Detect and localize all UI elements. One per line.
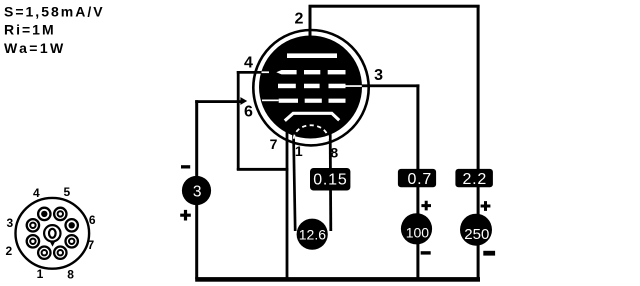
cathode	[285, 113, 339, 120]
svg-text:2: 2	[295, 11, 304, 28]
wire bracket vertical	[237, 71, 240, 170]
socket pin 7	[66, 235, 78, 247]
arrowhead grid connection	[240, 97, 247, 105]
svg-text:4: 4	[33, 186, 40, 200]
svg-text:12.6: 12.6	[299, 226, 326, 242]
svg-text:100: 100	[406, 224, 430, 240]
socket pin 1	[38, 247, 50, 259]
socket center post	[44, 225, 60, 247]
socket pin 2	[27, 235, 39, 247]
tube electrode assembly (black disc)	[259, 36, 362, 139]
plus sign (anode supply)	[481, 201, 491, 211]
heater current box 0.15	[310, 168, 350, 191]
svg-text:6: 6	[89, 213, 96, 227]
wire HT right vertical	[477, 5, 480, 279]
socket pin 6	[66, 219, 78, 231]
svg-text:0.15: 0.15	[313, 171, 347, 188]
anode supply 250V circle	[460, 214, 492, 246]
plus sign (Vg)	[180, 210, 191, 221]
minus sign (anode supply)	[483, 251, 495, 256]
anode plate bar	[287, 53, 337, 58]
svg-text:6: 6	[244, 103, 253, 120]
wire bracket bottom to cathode	[237, 168, 288, 171]
svg-text:1: 1	[295, 143, 303, 159]
svg-text:0.7: 0.7	[407, 171, 432, 188]
wire screen vertical	[416, 84, 419, 279]
svg-text:7: 7	[87, 238, 94, 252]
screen supply 100V circle	[401, 213, 432, 244]
svg-text:Wa=1W: Wa=1W	[4, 40, 66, 56]
minus sign (screen supply)	[421, 251, 431, 254]
anode current box 2.2	[455, 169, 493, 187]
socket pin 4	[38, 208, 50, 220]
grid g1 row (pin 6)	[262, 99, 346, 103]
svg-text:1: 1	[37, 267, 44, 281]
heater supply 12.6V circle	[297, 219, 328, 250]
minus sign (Vg)	[181, 165, 190, 168]
svg-text:4: 4	[244, 55, 253, 72]
wire ground bus	[195, 277, 480, 282]
heater (dashed dome)	[294, 125, 328, 139]
wire bracket top (pin 4)	[237, 71, 263, 74]
wire screen horizontal (pin3)	[356, 84, 419, 87]
wire anode top (pin2 to HT rail)	[309, 5, 480, 8]
wire heater right leg (pin 8)	[329, 134, 332, 231]
svg-text:5: 5	[64, 185, 71, 199]
tube V1 envelope	[253, 30, 368, 145]
wire heater left leg (pin 1)	[294, 134, 296, 231]
socket pin 8	[54, 247, 66, 259]
socket pin 5	[54, 208, 66, 220]
svg-text:3: 3	[193, 183, 202, 200]
screen current box 0.7	[398, 169, 436, 187]
plus sign (screen supply)	[421, 201, 431, 211]
svg-text:8: 8	[330, 144, 338, 160]
svg-text:3: 3	[6, 216, 13, 230]
wire grid bias horizontal	[195, 100, 241, 103]
socket pin 3	[27, 219, 39, 231]
svg-text:2: 2	[6, 244, 13, 258]
wire grid bias vertical	[195, 100, 198, 279]
svg-text:7: 7	[270, 136, 278, 152]
socket base outline	[16, 198, 90, 269]
svg-text:2.2: 2.2	[462, 171, 487, 188]
grid g3 row (pin 4)	[262, 70, 346, 74]
wire pin 2 lead	[309, 5, 312, 38]
svg-text:250: 250	[464, 226, 489, 243]
svg-text:3: 3	[374, 67, 383, 84]
svg-text:Ri=1M: Ri=1M	[4, 22, 56, 38]
battery Vg 3V circle	[182, 176, 211, 205]
svg-text:8: 8	[67, 268, 74, 282]
grid g2 screen row (pin 3)	[278, 84, 362, 89]
wire cathode lead (pin 7)	[286, 118, 289, 279]
svg-text:S=1,58mA/V: S=1,58mA/V	[4, 3, 105, 19]
